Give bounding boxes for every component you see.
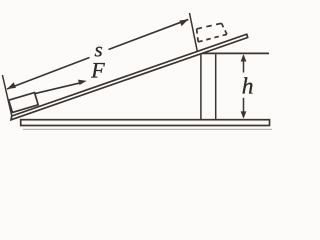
dashed right edge xyxy=(222,23,227,34)
block initial xyxy=(9,93,39,113)
extension line right xyxy=(190,13,198,51)
incline plank xyxy=(11,34,248,120)
s dimension line left segment xyxy=(7,58,90,90)
extension line left xyxy=(2,75,11,116)
platform top line xyxy=(196,52,269,54)
svg-text:F: F xyxy=(90,57,105,82)
ground shadow xyxy=(23,128,272,130)
base bar xyxy=(21,120,270,126)
F arrowhead xyxy=(78,80,87,85)
h arrow stems xyxy=(243,56,245,73)
post right xyxy=(215,54,217,120)
F arrow stem xyxy=(35,82,82,93)
svg-text:h: h xyxy=(242,74,254,100)
block final dashed: top edge xyxy=(197,23,222,29)
s dimension line right segment xyxy=(109,19,189,49)
h arrowhead down xyxy=(241,111,247,118)
s arrowhead left xyxy=(7,82,16,89)
dashed left edge xyxy=(197,29,199,42)
dashed bottom edge xyxy=(198,34,227,42)
s arrowhead right xyxy=(179,19,188,26)
h arrowhead up xyxy=(241,54,247,61)
post left xyxy=(200,54,202,120)
